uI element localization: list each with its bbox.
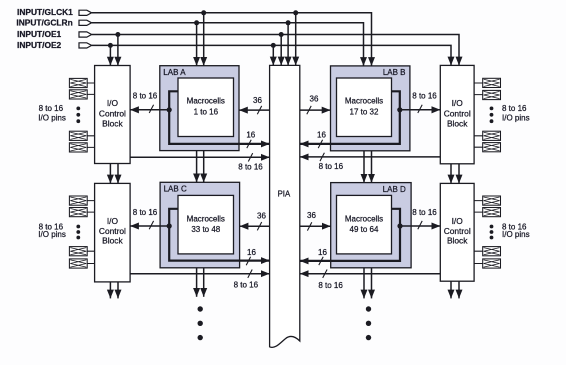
svg-text:Control: Control	[444, 109, 471, 119]
I/O pin symbol (bidirectional buffer)	[483, 143, 501, 152]
svg-text:Macrocells: Macrocells	[345, 215, 383, 224]
wire GLCK1 drop into PIA	[295, 13, 297, 66]
svg-text:Block: Block	[102, 235, 123, 245]
svg-text:Block: Block	[102, 119, 123, 129]
wire pin stubs to I/O control block	[474, 83, 483, 147]
svg-text:I/O: I/O	[107, 98, 119, 108]
I/O pin symbol (bidirectional buffer)	[69, 143, 87, 152]
I/O control block top-left	[95, 66, 131, 164]
junction dot OE2/left IO	[108, 43, 113, 48]
LAB D block	[331, 183, 411, 268]
svg-text:8 to 16: 8 to 16	[319, 162, 344, 171]
I/O pin symbol (bidirectional buffer)	[483, 208, 501, 217]
svg-text:Block: Block	[447, 119, 468, 129]
svg-text:8 to 16: 8 to 16	[39, 104, 64, 113]
tick 36 into LAB C	[257, 222, 261, 230]
tick 8to16 top-left I/O to PIA	[248, 153, 252, 161]
svg-text:8 to 16: 8 to 16	[234, 281, 259, 290]
svg-text:16: 16	[317, 131, 326, 140]
svg-text:I/O pins: I/O pins	[502, 114, 530, 123]
junction dot GLCK1/PIA	[293, 10, 298, 15]
LAB C block	[160, 182, 240, 267]
wire LAB B to LAB D column (2 drops)	[363, 151, 365, 183]
svg-text:INPUT/OE1: INPUT/OE1	[17, 29, 62, 39]
input pad INPUT/OE2	[79, 43, 92, 48]
PIA column (wavy bottom edge)	[270, 65, 300, 347]
svg-text:Macrocells: Macrocells	[187, 215, 225, 224]
LAB D feedback node wire to I/O control block (8 to 16)	[400, 225, 440, 227]
LAB C feedback node wire to I/O control block (8 to 16)	[130, 225, 169, 227]
wire pin stubs to I/O control block	[474, 201, 483, 264]
tick 16 LAB D to PIA	[319, 257, 323, 265]
I/O pin symbol (bidirectional buffer)	[69, 196, 87, 205]
I/O pin symbol (bidirectional buffer)	[483, 131, 501, 140]
junction dot GCLRn/LAB A	[194, 20, 199, 25]
LAB B feedback down-branch to PIA (16)	[300, 110, 400, 144]
I/O pin symbol (bidirectional buffer)	[69, 259, 87, 268]
wire LAB D continuation arrows	[363, 268, 365, 299]
svg-text:16: 16	[247, 248, 256, 257]
wire bottom-left I/O continuation arrows	[109, 282, 111, 299]
junction dot OE1/left IO	[115, 32, 120, 37]
I/O pin symbols top-right	[474, 78, 500, 152]
ellipsis dots below LAB D	[366, 306, 371, 311]
svg-text:LAB B: LAB B	[383, 68, 406, 77]
macrocells box LAB A	[178, 78, 234, 137]
wire OE2 drop into left I/O control block	[109, 45, 111, 65]
wire 8 to 16 top-left I/O to PIA	[130, 156, 270, 158]
LAB D feedback up-branch into macrocells	[392, 209, 401, 226]
wire pin stubs to I/O control block	[87, 83, 94, 147]
svg-text:INPUT/OE2: INPUT/OE2	[17, 40, 62, 50]
I/O pin symbol (bidirectional buffer)	[483, 196, 501, 205]
svg-text:36: 36	[307, 211, 316, 220]
LAB C feedback junction dot	[167, 223, 172, 228]
svg-text:I/O: I/O	[107, 216, 119, 226]
I/O pin symbols bottom-left	[69, 196, 94, 268]
wire LAB A to LAB C column (2 drops)	[196, 151, 198, 183]
svg-text:8 to 16: 8 to 16	[412, 91, 437, 100]
svg-text:INPUT/GCLRn: INPUT/GCLRn	[16, 17, 72, 27]
LAB A feedback junction dot	[167, 107, 172, 112]
I/O control block bottom-left	[95, 183, 131, 282]
I/O pin symbol (bidirectional buffer)	[69, 90, 87, 99]
wire 8 to 16 bottom-left I/O to PIA	[130, 273, 270, 275]
tick 8to16 bottom-left I/O to PIA	[248, 270, 252, 278]
svg-text:1 to 16: 1 to 16	[194, 107, 219, 116]
I/O pin symbol (bidirectional buffer)	[483, 78, 501, 87]
wire 36 from PIA into LAB C	[240, 225, 270, 227]
LAB A feedback node wire to I/O control block (8 to 16)	[130, 109, 169, 111]
LAB B block	[331, 66, 410, 151]
tick 36 into LAB A	[257, 106, 261, 114]
tick 16 LAB B to PIA	[318, 140, 322, 148]
wire GCLRn drop into PIA	[287, 23, 289, 66]
tick 8to16 LAB D feedback	[418, 221, 422, 229]
wire GCLRn drop into LAB A	[196, 23, 198, 66]
I/O pin dots bottom-left	[76, 225, 80, 229]
svg-text:33 to 48: 33 to 48	[191, 225, 220, 234]
I/O control block top-right	[440, 65, 474, 163]
wire right I/O column between rows (2 drops)	[450, 164, 452, 184]
wire 36 from PIA into LAB A	[239, 109, 270, 111]
ellipsis dots below LAB C	[198, 306, 203, 311]
svg-text:17 to 32: 17 to 32	[350, 107, 379, 116]
svg-text:Macrocells: Macrocells	[345, 97, 383, 106]
wire bottom-right I/O continuation arrows	[450, 281, 452, 298]
wire GCLRn top rail with drop into LAB B	[92, 23, 364, 66]
svg-text:16: 16	[318, 248, 327, 257]
I/O pin dots top-left	[76, 107, 80, 111]
I/O pin symbol (bidirectional buffer)	[69, 208, 87, 217]
wire OE1 top rail with drop into right I/O control block	[92, 35, 459, 66]
junction dot GCLRn/PIA	[286, 20, 291, 25]
I/O pin symbols top-left	[69, 78, 94, 152]
svg-text:8 to 16: 8 to 16	[238, 163, 263, 172]
macrocells box LAB B	[337, 78, 392, 137]
svg-text:I/O pins: I/O pins	[38, 230, 66, 239]
I/O pin symbol (bidirectional buffer)	[483, 259, 501, 268]
tick 8to16 LAB A feedback	[149, 105, 153, 113]
LAB B feedback junction dot	[397, 107, 402, 112]
I/O pin symbol (bidirectional buffer)	[483, 247, 501, 256]
input pad INPUT/OE1	[79, 32, 92, 37]
svg-text:I/O: I/O	[452, 216, 464, 226]
svg-text:PIA: PIA	[278, 189, 291, 198]
tick 8to16 bottom-right I/O to PIA	[323, 270, 327, 278]
input pad INPUT/GCLRn	[79, 20, 92, 25]
wire pin stubs to I/O control block	[87, 201, 94, 264]
svg-text:16: 16	[246, 131, 255, 140]
svg-text:8 to 16: 8 to 16	[133, 208, 158, 217]
wire 36 from PIA into LAB B	[300, 109, 331, 111]
junction dot OE1/PIA	[279, 32, 284, 37]
svg-text:I/O: I/O	[452, 98, 464, 108]
svg-text:LAB C: LAB C	[164, 185, 187, 194]
I/O pin dots bottom-right	[490, 225, 494, 229]
svg-text:I/O pins: I/O pins	[38, 114, 66, 123]
svg-text:Macrocells: Macrocells	[187, 97, 225, 106]
I/O pin symbols bottom-right	[474, 196, 500, 268]
junction dot GLCK1/LAB A	[201, 10, 206, 15]
LAB D feedback down-branch to PIA (16)	[300, 226, 400, 261]
wire OE2 drop into PIA	[272, 45, 274, 65]
LAB D feedback junction dot	[397, 223, 402, 228]
I/O pin symbol (bidirectional buffer)	[69, 247, 87, 256]
tick 16 LAB C to PIA	[246, 257, 250, 265]
junction dot OE2/PIA	[271, 43, 276, 48]
svg-text:36: 36	[257, 212, 266, 221]
svg-text:36: 36	[253, 96, 262, 105]
I/O pin dots top-right	[490, 107, 494, 111]
LAB A feedback down-branch to PIA (16)	[169, 110, 269, 144]
svg-text:49 to 64: 49 to 64	[350, 225, 379, 234]
wire OE2 top rail with drop into right I/O control block	[92, 45, 451, 65]
wire LAB C continuation arrows	[196, 268, 198, 297]
svg-text:8 to 16: 8 to 16	[412, 208, 437, 217]
LAB B feedback node wire to I/O control block (8 to 16)	[400, 109, 441, 111]
svg-text:Control: Control	[444, 226, 471, 236]
svg-text:36: 36	[310, 95, 319, 104]
svg-text:I/O pins: I/O pins	[502, 230, 530, 239]
I/O pin symbol (bidirectional buffer)	[69, 78, 87, 87]
tick 36 into LAB B	[307, 106, 311, 114]
svg-text:8 to 16: 8 to 16	[133, 91, 158, 100]
svg-text:Block: Block	[447, 235, 468, 245]
macrocells box LAB D	[337, 195, 392, 254]
wire 36 from PIA into LAB D	[300, 225, 331, 227]
I/O pin symbol (bidirectional buffer)	[483, 90, 501, 99]
svg-text:8 to 16: 8 to 16	[318, 281, 343, 290]
I/O control block bottom-right	[440, 183, 474, 281]
tick 8to16 LAB B feedback	[418, 105, 422, 113]
svg-text:LAB A: LAB A	[163, 68, 186, 77]
svg-text:INPUT/GLCK1: INPUT/GLCK1	[17, 7, 73, 17]
svg-text:Control: Control	[99, 109, 126, 119]
wire OE1 drop into left I/O control block	[117, 35, 119, 66]
input pad INPUT/GLCK1	[79, 10, 92, 15]
svg-text:8 to 16: 8 to 16	[502, 104, 527, 113]
I/O pin symbol (bidirectional buffer)	[69, 131, 87, 140]
tick 16 LAB A to PIA	[247, 140, 251, 148]
bus width ticks (slashes)	[149, 105, 422, 278]
wire 8 to 16 bottom-right I/O to PIA	[300, 273, 440, 275]
LAB A block	[160, 66, 239, 151]
svg-text:Control: Control	[99, 226, 126, 236]
tick 36 into LAB D	[307, 222, 311, 230]
LAB C feedback down-branch to PIA (16)	[169, 226, 269, 261]
svg-text:LAB D: LAB D	[383, 185, 406, 194]
tick 8to16 top-right I/O to PIA	[320, 153, 324, 161]
LAB A feedback up-branch into macrocells	[169, 91, 178, 110]
LAB B feedback up-branch into macrocells	[392, 91, 400, 110]
LAB C feedback up-branch into macrocells	[169, 209, 178, 226]
wire left I/O column between rows (2 drops)	[109, 164, 111, 184]
tick 8to16 LAB C feedback	[149, 221, 153, 229]
wire OE1 drop into PIA	[280, 35, 282, 66]
wire GLCK1 top rail with drop into LAB B	[92, 13, 372, 66]
wire 8 to 16 top-right I/O to PIA	[300, 156, 440, 158]
macrocells box LAB C	[178, 195, 234, 254]
wire GLCK1 drop into LAB A	[203, 13, 205, 66]
